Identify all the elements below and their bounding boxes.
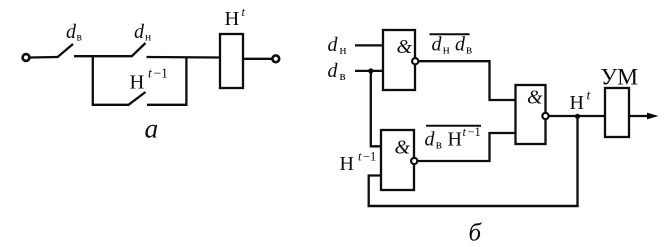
svg-text:H: H bbox=[130, 72, 145, 94]
U1 output bubble bbox=[412, 58, 418, 64]
svg-text:t: t bbox=[587, 88, 592, 103]
wire d_v input bbox=[355, 70, 384, 72]
svg-text:−1: −1 bbox=[363, 150, 376, 164]
junction node d_v bbox=[368, 68, 373, 73]
label d_n (part a) bbox=[134, 21, 151, 44]
svg-text:б: б bbox=[469, 220, 483, 247]
svg-text:d: d bbox=[66, 21, 77, 43]
NAND gate U2 box bbox=[381, 130, 414, 190]
wire bbox=[74, 55, 132, 57]
svg-text:н: н bbox=[443, 42, 450, 57]
junction node H^t bbox=[575, 114, 580, 119]
wire feedback down from H^t node bbox=[576, 116, 578, 207]
svg-text:&: & bbox=[527, 87, 543, 109]
wire branch up bbox=[185, 57, 187, 106]
wire output bbox=[629, 115, 650, 117]
output arrowhead bbox=[647, 113, 659, 120]
label NOT(d_n d_v) bbox=[430, 34, 473, 57]
svg-text:a: a bbox=[145, 113, 159, 144]
wire bbox=[243, 58, 272, 60]
label H^t (part a) bbox=[225, 5, 246, 30]
svg-text:в: в bbox=[436, 137, 442, 152]
svg-text:&: & bbox=[397, 36, 413, 58]
terminal left bbox=[23, 54, 30, 61]
svg-text:−1: −1 bbox=[154, 66, 168, 81]
svg-text:н: н bbox=[145, 32, 151, 44]
svg-text:H: H bbox=[340, 153, 354, 175]
svg-text:H: H bbox=[225, 8, 240, 30]
svg-text:d: d bbox=[328, 34, 339, 56]
relay coil H^t box bbox=[220, 34, 243, 88]
svg-text:в: в bbox=[466, 42, 472, 57]
U2 output bubble bbox=[411, 158, 417, 164]
svg-text:&: & bbox=[395, 137, 411, 159]
svg-text:−1: −1 bbox=[468, 125, 481, 139]
wire d_n input bbox=[355, 44, 384, 46]
amplifier UM box bbox=[605, 88, 629, 137]
wire U2 output bbox=[417, 133, 515, 161]
svg-text:H: H bbox=[570, 92, 584, 114]
wire bbox=[30, 56, 58, 59]
svg-text:d: d bbox=[425, 129, 436, 151]
svg-text:d: d bbox=[134, 21, 145, 43]
svg-text:УМ: УМ bbox=[601, 65, 639, 91]
svg-text:в: в bbox=[340, 68, 346, 83]
label d_v (part a) bbox=[66, 21, 83, 44]
svg-text:t: t bbox=[148, 66, 153, 81]
svg-text:H: H bbox=[448, 129, 462, 151]
label H t-1 feedback input bbox=[340, 150, 377, 176]
contact H t-1 blade bbox=[128, 92, 146, 105]
svg-text:d: d bbox=[432, 34, 443, 56]
svg-text:t: t bbox=[463, 125, 467, 139]
svg-text:t: t bbox=[358, 150, 362, 164]
contact d_n blade bbox=[132, 43, 146, 57]
wire lower branch bbox=[92, 104, 129, 106]
wire bbox=[147, 56, 221, 59]
label H^t node bbox=[570, 88, 592, 115]
wire feedback into U2 bbox=[369, 176, 382, 207]
svg-text:в: в bbox=[77, 32, 83, 44]
wire U1 output bbox=[418, 61, 515, 100]
terminal right bbox=[272, 55, 279, 62]
wire d_v down to U2 bbox=[371, 71, 382, 146]
wire bbox=[147, 104, 188, 106]
NAND gate U3 box bbox=[516, 85, 546, 144]
svg-text:d: d bbox=[455, 34, 466, 56]
contact d_v blade bbox=[57, 44, 73, 58]
svg-text:н: н bbox=[340, 42, 347, 57]
U3 output bubble bbox=[542, 113, 548, 119]
label NOT(d_v H t-1) bbox=[425, 125, 482, 152]
wire branch down bbox=[92, 55, 94, 106]
label d_v input bbox=[328, 60, 346, 83]
svg-text:d: d bbox=[328, 60, 339, 82]
NAND gate U1 box bbox=[383, 30, 415, 90]
wire feedback bottom bbox=[368, 205, 579, 208]
label H t-1 (part a) bbox=[130, 66, 168, 94]
wire U3 output bbox=[549, 115, 605, 117]
label d_n input bbox=[328, 34, 347, 57]
svg-text:t: t bbox=[242, 5, 246, 19]
